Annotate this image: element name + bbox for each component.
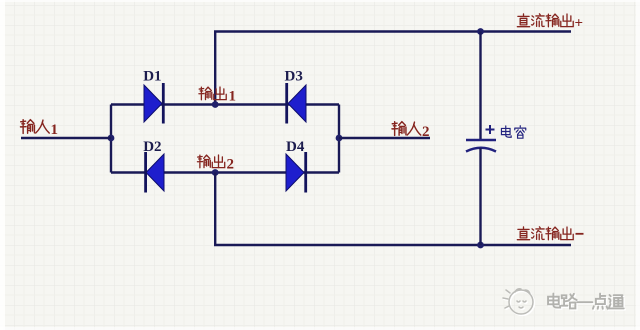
junction node 输出2 <box>212 169 219 176</box>
designator D2 <box>143 139 161 155</box>
watermark logo <box>503 289 534 315</box>
svg-text:1: 1 <box>51 122 59 138</box>
designator D1 <box>143 69 161 85</box>
wire bottom rail DC- <box>214 244 571 246</box>
designator D4 <box>286 139 305 155</box>
net label 直流输出- <box>517 227 583 240</box>
capacitor C1 <box>466 140 496 152</box>
page edge fades <box>0 0 5 330</box>
svg-text:2: 2 <box>422 124 430 140</box>
net label 输入2 <box>392 122 430 140</box>
value label 电容 <box>501 126 525 138</box>
net label 输入1 <box>20 120 58 138</box>
designator D3 <box>285 69 303 85</box>
svg-text:+: + <box>575 16 584 32</box>
wire right rail <box>338 105 340 173</box>
junction 输入1 / left rail <box>108 135 115 142</box>
wire bottom diode row <box>111 171 339 173</box>
wire from node 输出1 up to top rail <box>214 32 216 105</box>
diode D4 <box>286 152 306 193</box>
svg-text:1: 1 <box>229 89 237 105</box>
wire capacitor top lead <box>479 32 481 140</box>
wire left rail <box>110 105 112 173</box>
diode D1 <box>144 83 163 124</box>
wire top diode row <box>111 103 339 105</box>
svg-text:D4: D4 <box>286 139 305 155</box>
junction bottom rail / capacitor <box>477 242 484 249</box>
svg-text:D3: D3 <box>285 69 303 85</box>
diode D2 <box>146 152 164 193</box>
watermark text 电路一点通 <box>548 294 625 310</box>
wire 输入2 <box>339 137 430 139</box>
diode D3 <box>287 83 306 124</box>
svg-text:D1: D1 <box>143 69 161 85</box>
svg-text:D2: D2 <box>143 139 161 155</box>
capacitor polarity + <box>486 125 495 134</box>
junction node 输出1 <box>212 101 219 108</box>
net label 输出2 <box>197 155 234 172</box>
junction 输入2 / right rail <box>336 135 343 142</box>
wire 输入1 <box>21 137 111 139</box>
wire top rail DC+ <box>214 30 571 32</box>
net label 输出1 <box>199 87 236 104</box>
wire from node 输出2 down to bottom rail <box>214 173 216 246</box>
net label 直流输出+ <box>517 14 583 32</box>
svg-text:2: 2 <box>227 157 235 173</box>
wire capacitor bottom lead <box>479 148 481 245</box>
junction top rail / capacitor <box>477 28 484 35</box>
